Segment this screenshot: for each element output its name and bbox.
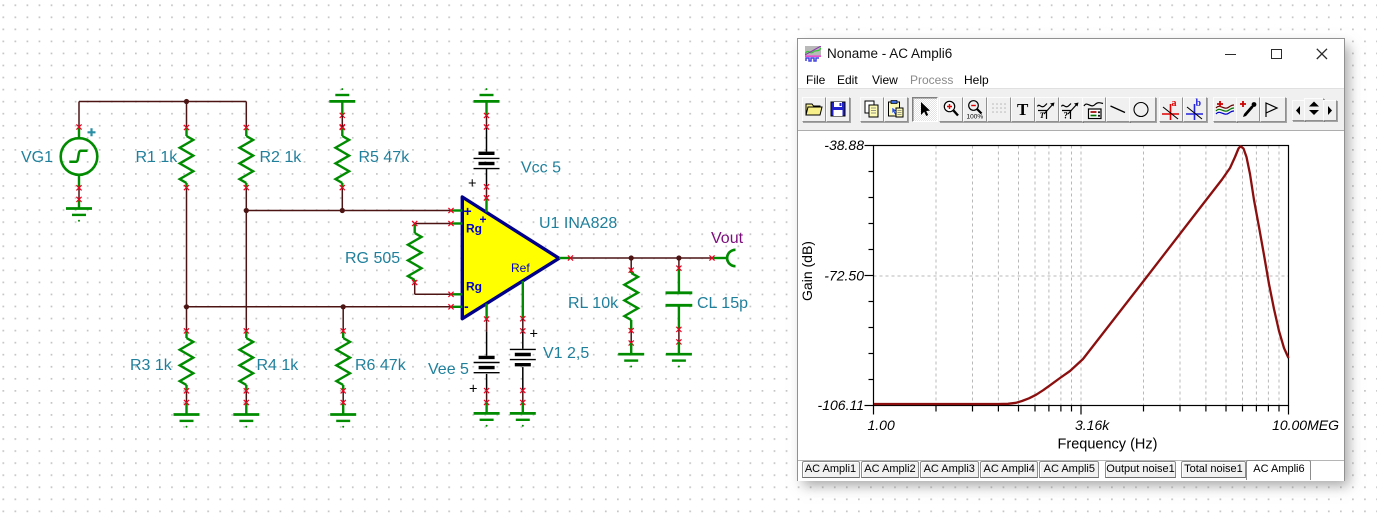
svg-text:Vcc 5: Vcc 5	[521, 160, 561, 177]
svg-text:Ref: Ref	[511, 261, 530, 275]
svg-text:Rg: Rg	[466, 280, 482, 294]
wire R4 column crossing lower bus	[245, 211, 247, 331]
svg-text:+: +	[530, 327, 538, 343]
wire Vee stub segments	[486, 319, 488, 403]
capacitor CL	[666, 266, 693, 354]
label RL value	[568, 295, 619, 312]
pin U1 output	[559, 255, 573, 260]
svg-text:a: a	[1172, 98, 1177, 109]
resistor R4	[240, 328, 254, 414]
svg-text:3.16k: 3.16k	[1075, 417, 1110, 433]
node junction R1/top bus	[184, 99, 189, 104]
resistor R5	[336, 125, 350, 190]
pin U1 V- supply	[484, 304, 489, 322]
wire RG top to U1 Rg pin	[415, 223, 451, 225]
resistor R3	[180, 328, 194, 414]
node junction R2/plus bus	[244, 208, 249, 213]
label R5 value	[359, 149, 411, 166]
svg-text:R2 1k: R2 1k	[260, 149, 303, 166]
svg-text:Vout: Vout	[711, 230, 744, 247]
node junction R1-R3/minus bus	[184, 304, 189, 309]
ground below VG1	[66, 209, 92, 222]
ground below RL	[618, 354, 644, 367]
battery V1 2,5	[510, 327, 538, 406]
node junction output/CL	[676, 255, 681, 260]
wire R1 bottom to lower bus	[186, 188, 188, 307]
svg-text:R5 47k: R5 47k	[359, 149, 411, 166]
wire R1 top drop	[186, 102, 188, 128]
output terminal Vout	[709, 250, 735, 266]
analysis chart	[798, 129, 1344, 459]
battery Vee 5	[469, 357, 500, 405]
label node Vout	[711, 230, 744, 247]
resistor R2	[240, 125, 254, 190]
wire R6 top	[342, 307, 344, 331]
battery Vcc 5	[468, 153, 500, 200]
wire RL drop	[630, 258, 632, 343]
label RG value	[345, 250, 400, 267]
wire R2 bottom to plus bus	[245, 188, 247, 211]
label R1 value	[136, 149, 179, 166]
ground below V1	[510, 403, 536, 427]
wire top bus from VG1 to R2	[79, 102, 246, 128]
ground below R4	[233, 415, 259, 428]
label V1 2,5	[543, 345, 589, 362]
svg-text:Vee 5: Vee 5	[428, 361, 469, 378]
wire R2 top drop	[245, 102, 247, 128]
svg-text:VG1: VG1	[21, 149, 53, 166]
ground above Vcc	[474, 88, 500, 101]
svg-text:T: T	[1039, 110, 1045, 120]
ground below Vee	[474, 403, 500, 427]
svg-text:R4 1k: R4 1k	[257, 357, 300, 374]
svg-text:+: +	[480, 213, 487, 227]
node junction output/RL	[629, 255, 634, 260]
generator VG1	[61, 124, 98, 208]
svg-text:+: +	[469, 382, 477, 398]
resistor RG	[408, 221, 422, 285]
label Vcc 5	[521, 160, 561, 177]
wire CL drop	[678, 258, 680, 342]
svg-text:Gain (dB): Gain (dB)	[799, 241, 815, 301]
ground below R6	[330, 415, 356, 428]
resistor R6	[336, 328, 350, 414]
svg-text:V1 2,5: V1 2,5	[543, 345, 589, 362]
ground below R3	[174, 415, 200, 428]
svg-text:RG 505: RG 505	[345, 250, 400, 267]
svg-text:100%: 100%	[966, 114, 983, 121]
svg-text:R1 1k: R1 1k	[136, 149, 179, 166]
label R4 value	[257, 357, 300, 374]
pin U1 - input	[448, 304, 462, 309]
resistor RL	[624, 268, 638, 354]
node junction R6/minus bus	[341, 304, 346, 309]
svg-text:-38.88: -38.88	[824, 137, 864, 153]
svg-text:T: T	[1017, 100, 1029, 119]
label CL value	[697, 295, 748, 312]
pin U1 V+ supply	[484, 195, 489, 212]
svg-text:CL 15p: CL 15p	[697, 295, 748, 312]
wire lower bus to U1 - input	[187, 306, 452, 308]
label Vee 5	[428, 361, 469, 378]
svg-text:-72.50: -72.50	[824, 268, 864, 284]
label U1 INA828	[539, 215, 617, 232]
wire RG bottom to U1 Rg pin	[415, 283, 451, 295]
svg-text:+: +	[464, 203, 472, 219]
label R6 value	[355, 357, 407, 374]
svg-text:R6 47k: R6 47k	[355, 357, 407, 374]
svg-text:R3 1k: R3 1k	[130, 357, 173, 374]
label R3 value	[130, 357, 173, 374]
wire plus bus to U1 + input	[246, 210, 451, 212]
ground below CL	[666, 354, 692, 367]
svg-text:+: +	[468, 176, 476, 192]
svg-text:-106.11: -106.11	[818, 397, 864, 413]
pin U1 Rg bottom	[448, 292, 462, 297]
toolbar	[798, 88, 1344, 131]
label VG1	[21, 149, 53, 166]
node junction R5/plus bus	[340, 208, 345, 213]
wire U1 output to Vout	[571, 257, 713, 259]
svg-text:-: -	[464, 298, 469, 314]
wire R5 bottom to plus bus	[341, 188, 343, 211]
result tabs	[798, 460, 1344, 482]
svg-text:10.00MEG: 10.00MEG	[1272, 417, 1339, 433]
wire V1 stub segments	[522, 331, 524, 403]
label R2 value	[260, 149, 303, 166]
wire R3 top	[186, 307, 188, 331]
svg-text:RL 10k: RL 10k	[568, 295, 619, 312]
wire Vcc stub segments	[486, 116, 488, 198]
svg-text:1.00: 1.00	[868, 417, 895, 433]
svg-text:Frequency (Hz): Frequency (Hz)	[1058, 437, 1158, 453]
svg-text:?: ?	[1063, 111, 1068, 121]
window title bar	[805, 46, 821, 62]
svg-text:U1 INA828: U1 INA828	[539, 215, 617, 232]
resistor R1	[180, 125, 194, 190]
ground above R5	[329, 88, 355, 101]
pin U1 Rg top	[448, 221, 462, 226]
op-amp U1 INA828	[462, 197, 559, 319]
svg-text:b: b	[1196, 98, 1202, 109]
pin U1 Ref	[520, 281, 525, 334]
pin U1 + input	[448, 208, 462, 213]
menu bar	[806, 73, 825, 87]
